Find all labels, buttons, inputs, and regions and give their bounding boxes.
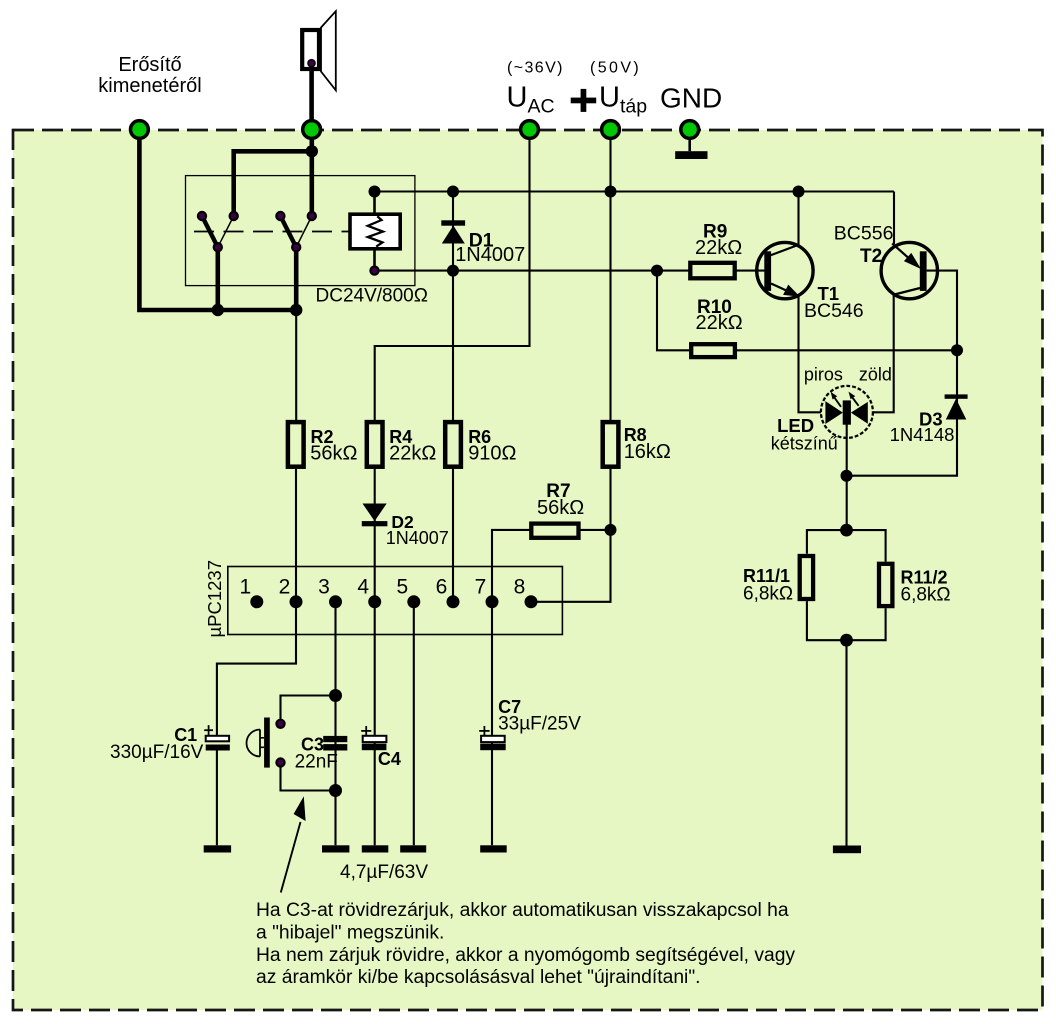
svg-text:6,8kΩ: 6,8kΩ [901,585,951,606]
terminal GND [681,121,699,139]
ground C4 [362,845,389,852]
resistor R10 [691,344,735,357]
pin 5 [407,595,420,608]
wire R9 to T1 base [734,270,765,272]
capacitor C3 [323,736,347,751]
switch 1 arm [202,216,218,247]
svg-text:BC546: BC546 [804,300,864,322]
wire thick: branch to switch 1 [234,151,312,216]
svg-text:910Ω: 910Ω [468,442,516,464]
svg-text:1N4007: 1N4007 [455,244,525,266]
switch 2 arm [280,216,296,247]
wire C1 to ground [216,751,218,846]
wire pin 2 to C1 [217,602,296,736]
svg-text:1N4007: 1N4007 [386,528,449,548]
pushbutton S1 [247,718,285,768]
svg-text:22nF: 22nF [295,752,338,773]
svg-text:kétszínű: kétszínű [771,434,838,454]
resistor R11/1 [800,556,813,599]
svg-text:1: 1 [239,576,251,599]
resistor R2 [288,422,304,467]
resistor R11/2 [879,564,892,606]
wire thick: amp output down and along bottom [139,131,298,310]
junction D1 bottom [447,265,459,277]
capacitor C1 [204,725,230,750]
annotation arrow to C3 [281,796,306,892]
wire T2 emitter from top rail [893,192,895,245]
svg-text:BC556: BC556 [834,223,894,245]
junction T2 base / D3 [951,344,963,356]
resistor R4 [367,422,383,467]
svg-text:1N4148: 1N4148 [890,424,955,445]
wire: R2 line to pin 2 [295,310,297,420]
svg-text:piros: piros [804,365,843,385]
svg-text:(~36V): (~36V) [507,59,564,76]
diode D3 [945,394,968,419]
svg-text:22kΩ: 22kΩ [696,312,743,334]
svg-text:DC24V/800Ω: DC24V/800Ω [316,286,428,307]
transistor T2 [881,242,937,298]
wire: U_táp line down to R8 [609,131,611,420]
svg-text:az áramkör ki/be kapcsolásásva: az áramkör ki/be kapcsolásásval lehet "ú… [256,967,701,988]
svg-text:T2: T2 [860,246,882,267]
junction U_táp top rail [605,186,617,198]
junction coil top [369,186,381,198]
junction R7/R8 [605,524,617,536]
plus symbol [571,89,597,112]
wire thick: speaker down to switch 2 [309,131,314,216]
pin 4 [368,595,381,608]
svg-text:4: 4 [357,576,369,599]
wire T2 base [927,271,957,351]
ground GND terminal [675,133,707,159]
switch 2 throw [296,216,312,247]
svg-text:330µF/16V: 330µF/16V [110,742,204,763]
wire: R8 to pin 8 riser [531,469,611,602]
wire LED bottom [846,424,848,530]
wire: rail y=270.6 coil to R9 [375,270,689,272]
wire thick: switch pivots down [216,247,221,310]
diode D2 [362,504,388,527]
pin 3 [329,595,342,608]
switch 1 throw [218,216,234,247]
wire T1 collector [797,192,799,247]
junction D1 top [447,186,459,198]
resistor R7 [531,524,578,538]
wire T2 collector down [873,295,894,412]
wire: R4 to D2 to pin 4 [374,469,376,602]
wire: R6 to pin 6 [452,469,454,602]
pin 1 [250,595,263,608]
svg-text:zöld: zöld [859,365,892,385]
svg-text:Ha C3-at rövidrezárjuk, akkor: Ha C3-at rövidrezárjuk, akkor automatiku… [256,900,789,921]
relay box K1 [186,176,415,286]
junction coil bottom [370,267,378,275]
wire R10 right to T2 base branch [737,349,957,351]
svg-text:6,8kΩ: 6,8kΩ [743,584,793,605]
pin 7 [486,595,499,608]
svg-text:33µF/25V: 33µF/25V [498,714,581,735]
svg-text:3: 3 [318,576,330,599]
terminal amp output [131,121,149,139]
capacitor C7 [479,726,506,750]
junction T1 collector rail [793,186,805,198]
junction R11 bottom [840,634,853,647]
IC µPC1237 box [228,567,563,635]
junction C3 bottom [329,784,342,797]
resistor R9 [690,263,734,279]
wire pin 4 to C4 [374,602,376,846]
switch contact dots [198,212,316,251]
ground C3 [322,845,349,852]
svg-text:Ha nem zárjuk rövidre, akkor a: Ha nem zárjuk rövidre, akkor a nyomógomb… [256,945,795,966]
junction R11 top [840,524,853,537]
ground R11 [833,846,861,854]
wire: D1 branch down to R6 [452,192,454,421]
diode D1 [441,220,465,243]
resistor R6 [445,422,461,467]
svg-text:a "hibajel" megszünik.: a "hibajel" megszünik. [256,922,444,943]
svg-text:7: 7 [475,576,487,599]
svg-text:(50V): (50V) [590,59,641,76]
junction LED/D3 [841,470,853,482]
label Erősítő kimenetéről [98,54,201,97]
ground C1 [204,845,231,852]
wire pin 5 to ground [413,602,415,846]
terminal speaker [303,121,321,139]
svg-text:GND: GND [660,82,722,113]
terminal U_AC [521,121,539,139]
wire: R7 leads and pin 7 riser [579,529,611,531]
relay coil [350,192,400,271]
svg-text:5: 5 [396,576,408,599]
junction R9/R10 branch [651,265,663,277]
svg-text:kimenetéről: kimenetéről [98,75,201,97]
LED bicolor [821,386,873,438]
ground C7 [480,845,507,852]
annotation text [256,900,795,988]
terminal U_táp [602,121,620,139]
wire: U_AC line down, left, to R4 [375,131,530,420]
speaker LS1 [302,11,336,129]
svg-text:56kΩ: 56kΩ [310,442,357,464]
svg-text:8: 8 [514,576,526,599]
svg-text:22kΩ: 22kΩ [389,442,436,464]
R11 parallel pair wires [807,530,886,845]
junction C3 top [329,689,342,702]
junction bottom right [290,304,302,316]
wire pin 7 to C7 [491,602,493,846]
wire R10 left branch [657,271,689,351]
svg-text:56kΩ: 56kΩ [537,497,584,519]
capacitor C4 [361,726,386,750]
svg-text:22kΩ: 22kΩ [695,237,742,259]
pin 8 [525,595,538,608]
pin 6 [447,595,460,608]
junction speaker branch [306,145,318,157]
wire T1 emitter down [799,297,821,413]
svg-text:6: 6 [436,576,448,599]
resistor R8 [603,422,619,467]
pin 2 [290,595,303,608]
wire: top rail y=191.5 [375,190,895,192]
wire pushbutton branch [281,696,336,724]
svg-text:2: 2 [279,576,291,599]
svg-text:16kΩ: 16kΩ [624,441,671,463]
svg-text:4,7µF/63V: 4,7µF/63V [340,862,428,883]
transistor T1 [757,242,813,298]
junction bottom left [212,304,224,316]
svg-text:C4: C4 [378,749,401,769]
svg-text:µPC1237: µPC1237 [204,560,225,638]
wire D3 down to LED bottom [847,350,958,475]
wire pin 3 down [334,602,336,846]
svg-text:Erősítő: Erősítő [118,54,181,76]
ground pin 5 [400,845,426,852]
relay actuation dashed line [194,231,350,233]
